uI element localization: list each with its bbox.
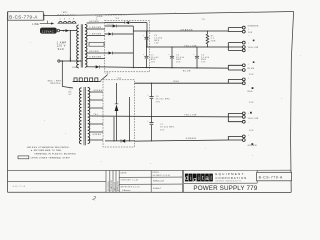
svg-text:GREEN: GREEN [248,145,257,147]
capacitor C5 [143,30,163,47]
svg-text:⌜GND: ⌜GND [95,15,103,18]
diode D2 [105,33,134,36]
svg-text:ORANGE: ORANGE [180,28,193,31]
svg-text:OPEN JONES TERMINAL STRIP: OPEN JONES TERMINAL STRIP [31,156,71,159]
svg-text:39,000 MFD: 39,000 MFD [156,99,171,101]
svg-text:J.Barnes: J.Barnes [122,190,132,192]
rectifier assembly D6-D8 dashed outline [103,80,135,147]
svg-text:BLUE: BLUE [248,68,255,70]
output terminal group 2 (common, yellow) [228,40,258,53]
capacitor C7 [147,120,175,131]
svg-text:25V: 25V [156,101,161,103]
wire YELLOW (lower rail) [89,115,228,117]
svg-text:−: − [248,122,250,124]
node GND dashed leader [95,15,127,21]
junction [62,60,64,62]
svg-text:25V: 25V [151,62,156,64]
svg-text:−: − [248,50,250,52]
svg-text:8 BROWN: 8 BROWN [89,57,101,59]
diode D3 [105,52,134,55]
svg-text:YEL: YEL [93,114,98,116]
transformer T1 primary winding [77,25,79,68]
svg-text:g: g [193,177,197,184]
svg-text:⌜R1: ⌜R1 [201,18,205,21]
svg-text:15V: 15V [249,130,254,132]
svg-text:15V: 15V [154,42,159,44]
svg-text:115VAC: 115VAC [42,30,54,33]
T2 secondary taps [89,92,103,140]
output terminal group 6 (green) [228,135,257,148]
svg-text:RED: RED [174,81,180,83]
transformer T2 secondary winding [88,87,90,143]
svg-text:YELLOW: YELLOW [184,45,197,47]
label LINE (AC input) [32,21,54,26]
svg-text:⌜CKT: ⌜CKT [104,72,111,75]
svg-text:i: i [190,175,191,182]
svg-text:TWISTED: TWISTED [50,83,61,85]
diode D7 (pointing left, bottom) [105,139,135,143]
fuse F1 rating label [57,42,67,51]
svg-text:A-ML-779-A: A-ML-779-A [13,185,26,188]
svg-text:LINE: LINE [32,23,39,26]
output terminal group 1 (+10V, orange) [228,24,259,37]
transformer T1 core [81,24,82,67]
revision table texts [108,180,120,191]
svg-text:ORANGE: ORANGE [248,24,259,27]
svg-text:6 BROWN: 6 BROWN [89,27,101,29]
terminal strip TB2 [73,75,108,82]
diode D6 (pointing up) [115,83,119,141]
bus wire (vertical) in D1 box [132,26,134,68]
wire ORANGE (+10V rail) [133,28,228,31]
terminal strip TB1 (top, terminals 5-8) [58,22,77,24]
svg-text:CHECKED 5-1-65: CHECKED 5-1-65 [121,180,139,182]
svg-text:d: d [185,175,189,182]
svg-text:★ RETURN ARE TO TAB-: ★ RETURN ARE TO TAB- [31,149,62,152]
electrostatic shield rect [89,42,104,46]
svg-text:YELLOW: YELLOW [184,115,197,117]
svg-text:25V: 25V [176,62,181,64]
svg-text:UNLESS OTHERWISE INDICATED:: UNLESS OTHERWISE INDICATED: [27,146,70,149]
svg-text:15V: 15V [201,62,206,64]
diode D1 [105,25,134,28]
wire YELLOW (common rail) [147,45,228,47]
EQUIPMENT CORPORATION text [215,172,247,182]
capacitor C6 [147,94,170,103]
arrowhead on line wire [65,29,69,32]
svg-text:R.Melc 2-4: R.Melc 2-4 [153,180,164,183]
wire GREEN (lower rail) [135,138,229,141]
svg-text:POWER SUPPLY 779: POWER SUPPLY 779 [193,185,257,192]
lower filter bus [151,83,153,141]
open terminal (line return) [58,60,60,62]
svg-text:1N3209: 1N3209 [107,24,114,26]
secondary tap wires with colour labels [87,23,105,67]
svg-text:CORPORATION: CORPORATION [215,176,247,180]
svg-text:6: 6 [64,19,65,21]
label TO GND LUG [68,89,72,96]
svg-text:5: 5 [60,19,61,21]
diode D4 (on blue return) [96,65,100,68]
wire RED (+15V rail) [135,81,229,83]
svg-text:CHANGE NO: CHANGE NO [110,180,113,191]
capacitor C3 [193,46,209,68]
wire from open terminal [60,60,81,62]
svg-text:PROD: PROD [152,172,159,174]
svg-text:39,000 MFD: 39,000 MFD [160,127,175,129]
svg-text:−: − [248,85,250,87]
notes text block [27,146,76,159]
svg-text:DATE: DATE [121,171,128,174]
junction at primary top [70,30,71,31]
svg-text:15V: 15V [249,102,254,104]
label RED-WHT TWISTED [48,81,62,86]
svg-text:7 BROWN: 7 BROWN [89,34,101,36]
junction dot after plug [63,30,65,32]
svg-text:RED: RED [248,91,254,93]
svg-text:B-CS-779-A: B-CS-779-A [259,176,283,180]
svg-text:15V: 15V [249,74,254,76]
wire down to lower winding [62,61,73,88]
svg-text:25V: 25V [160,129,165,131]
svg-text:−: − [248,35,250,37]
wire from plug to transformer primary [60,31,77,62]
drawing number box (title block) [257,172,292,181]
plug P1 115 VAC [40,28,59,34]
svg-text:l: l [210,175,211,182]
note icon: open jones terminal strip [18,156,29,159]
svg-text:TERMINAL IN PLASTIC BUSHING: TERMINAL IN PLASTIC BUSHING [34,152,76,155]
svg-text:8: 8 [73,19,74,21]
output terminal group 3 (-15V, blue) [228,61,254,76]
svg-text:BROWN: BROWN [89,51,99,53]
label SPL [58,11,76,14]
capacitor C1 [143,47,159,68]
drawing number box B-CS-779-A (top left) [8,12,44,21]
diode D5 (top, pointing left) [105,21,147,24]
title block [8,170,292,192]
svg-text:S.Walt 7: S.Walt 7 [153,187,162,190]
capacitor C2 [168,46,184,68]
svg-text:B-CS-779-A: B-CS-779-A [9,14,38,19]
svg-text:t: t [202,175,204,182]
svg-text:GREEN: GREEN [92,134,101,136]
svg-text:25W: 25W [211,40,216,42]
dust specks [30,12,301,164]
output terminal group 4 (+15V, red) [228,78,254,104]
transformer T2 primary winding [79,88,81,144]
wire BLUE (-15V rail) [100,67,229,72]
svg-text:i: i [198,175,199,182]
transformer T1 secondary winding [85,24,87,67]
svg-text:LINE: LINE [72,67,78,69]
svg-text:APPROVED 6-2-65: APPROVED 6-2-65 [121,186,140,189]
svg-text:YELLOW: YELLOW [248,118,259,120]
output terminal group 5 (yellow) [228,112,258,132]
svg-text:GREEN: GREEN [93,90,102,92]
svg-text:7: 7 [69,19,70,21]
svg-text:APPROVED: APPROVED [117,180,120,191]
rectifier assembly D1-D4 dashed outline [105,20,150,72]
svg-text:BROWN: BROWN [89,21,99,23]
svg-text:⌜D1: ⌜D1 [115,17,120,20]
bus wire (vertical) right of D1 box [146,23,148,47]
svg-text:SLO: SLO [58,48,65,51]
transformer T2 core [84,87,85,145]
resistor R1 [206,30,216,47]
svg-text:C7: C7 [160,124,163,126]
svg-text:⌜SPL: ⌜SPL [61,11,68,14]
svg-text:REVISIONS: REVISIONS [108,180,110,191]
svg-text:⌜D2: ⌜D2 [117,77,122,80]
svg-text:BLUE: BLUE [183,70,191,72]
DEC digital logo [185,174,213,184]
bus wires in D2 box [114,97,130,141]
svg-text:GREEN: GREEN [186,138,197,140]
svg-text:YELLOW: YELLOW [248,47,259,49]
svg-text:JA GARR 4-23-65: JA GARR 4-23-65 [152,174,170,177]
svg-text:DATE CHK: DATE CHK [113,181,116,191]
svg-text:10V: 10V [248,32,253,34]
svg-text:a: a [205,175,209,182]
svg-text:C6: C6 [156,96,159,98]
